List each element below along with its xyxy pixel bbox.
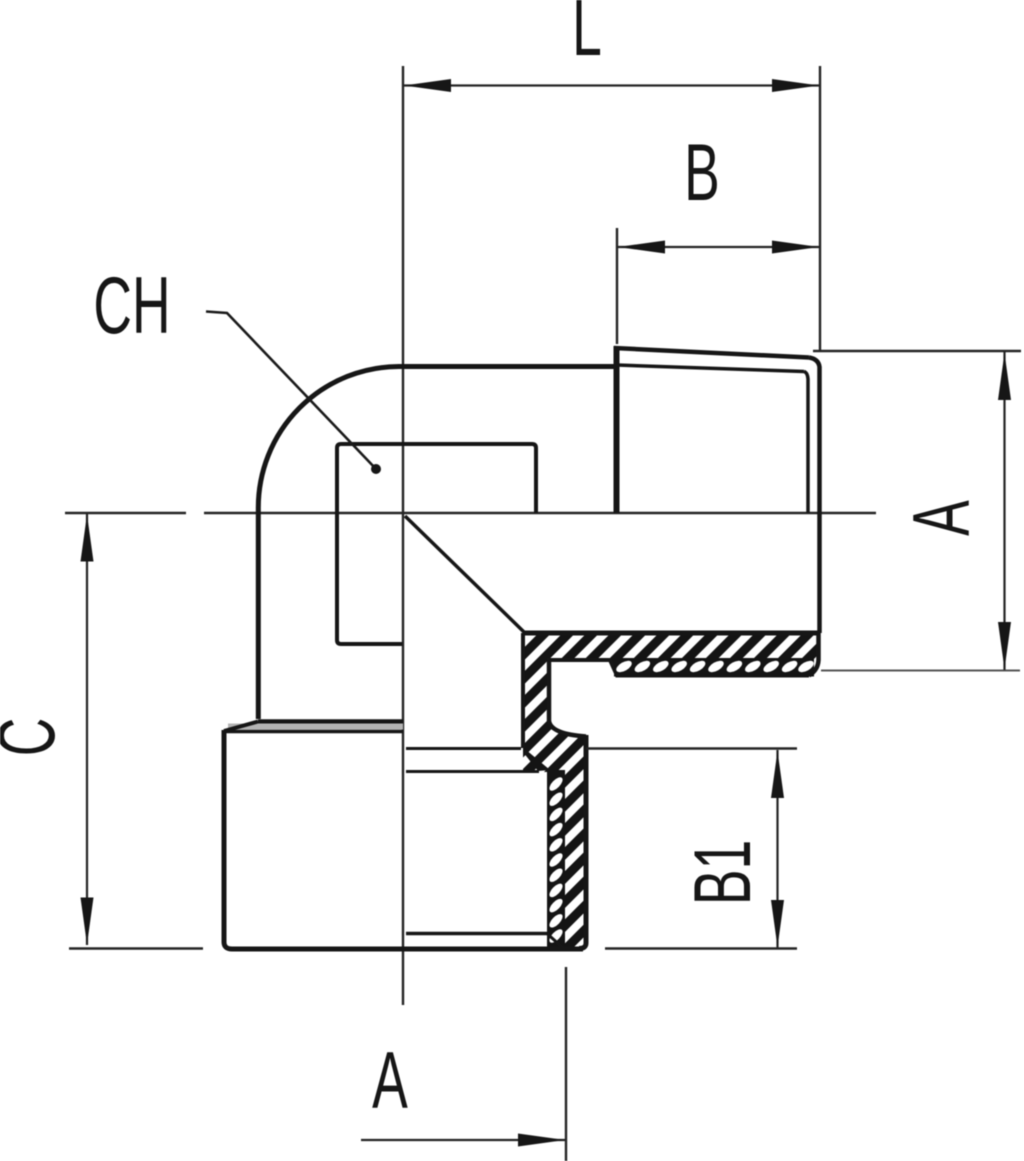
- dimension A-bottom extension: [565, 967, 567, 1161]
- dimension L extension right: [819, 66, 821, 350]
- node leader-dot: [371, 464, 381, 474]
- dimension B arrow right: [772, 241, 819, 254]
- wire diagonal-break-line: [405, 516, 525, 633]
- svg-text:A: A: [372, 1035, 408, 1126]
- male thread scallops: [614, 658, 816, 677]
- svg-text:CH: CH: [93, 260, 170, 351]
- wire male-bore-line: [523, 631, 819, 636]
- wire body-outline: [258, 367, 616, 720]
- dimension B arrow left: [618, 241, 665, 254]
- dimension C arrow top: [81, 515, 94, 562]
- node vertical-centerline: [402, 66, 404, 1005]
- dimension L arrow right: [772, 79, 819, 92]
- dimension C extension bottom: [69, 947, 203, 949]
- dimension B1 line: [776, 750, 778, 948]
- dimension A-right arrow top: [998, 353, 1011, 400]
- wire female-thread-runout-chamfer: [547, 934, 563, 949]
- dimension B1 arrow bottom: [771, 900, 784, 947]
- dimension L line: [403, 84, 820, 86]
- section hatched wall: [523, 633, 819, 949]
- dimension L arrow left: [404, 79, 451, 92]
- wire female-port-left-and-bottom: [224, 730, 583, 949]
- dimension B1 extension top: [586, 747, 797, 749]
- svg-text:A: A: [896, 500, 987, 536]
- dimension A-right line: [1003, 352, 1005, 670]
- svg-text:B: B: [684, 127, 720, 218]
- wire female-bore-top-line: [406, 747, 521, 750]
- node female-port-top-gray-band: [228, 724, 403, 730]
- svg-text:B1: B1: [677, 840, 768, 905]
- wire female-port-top-chamfer: [224, 722, 258, 732]
- wire female-port-top-lower-line: [225, 730, 403, 734]
- wire hex-flat-CH: [337, 444, 536, 644]
- wire leader-CH: [206, 312, 376, 470]
- node horizontal-centerline: [65, 512, 876, 514]
- dimension C arrow bottom: [81, 898, 94, 945]
- svg-text:L: L: [572, 0, 602, 73]
- female thread scallops: [547, 770, 565, 948]
- wire female-thread-top-line: [406, 770, 539, 773]
- dimension A-right extension top: [813, 350, 1021, 352]
- wire male-port-left-edge: [614, 346, 620, 513]
- svg-text:C: C: [0, 718, 72, 757]
- wire body-tube-outer-wall: [549, 658, 586, 737]
- dimension A-bottom arrow: [518, 1134, 565, 1147]
- dimension B line: [617, 246, 820, 248]
- wire male-end-face-outer: [809, 358, 820, 634]
- dimension C line: [86, 514, 88, 945]
- wire female-port-top-edge: [258, 719, 403, 724]
- dimension B1 arrow top: [771, 751, 784, 798]
- wire male-thread-crest: [614, 348, 809, 358]
- wire male-end-face-section: [809, 633, 819, 676]
- node thread-corner-notch: [523, 749, 550, 771]
- wire male-thread-root: [617, 365, 804, 372]
- dimension A-right arrow bottom: [998, 622, 1011, 669]
- dimension A-bottom line: [361, 1139, 566, 1141]
- dimension B1 extension bottom: [605, 947, 797, 949]
- wire female-bore-bottom-line: [406, 932, 547, 936]
- wire male-thread-band-bottom: [549, 660, 809, 676]
- dimension B extension left: [616, 228, 618, 344]
- wire female-bore-wall: [549, 772, 553, 948]
- dimension A-right extension bottom: [821, 670, 1020, 672]
- wire female-outer-wall: [579, 735, 586, 949]
- wire male-end-face-inner: [804, 372, 808, 514]
- wire body-inner-wall: [521, 633, 525, 748]
